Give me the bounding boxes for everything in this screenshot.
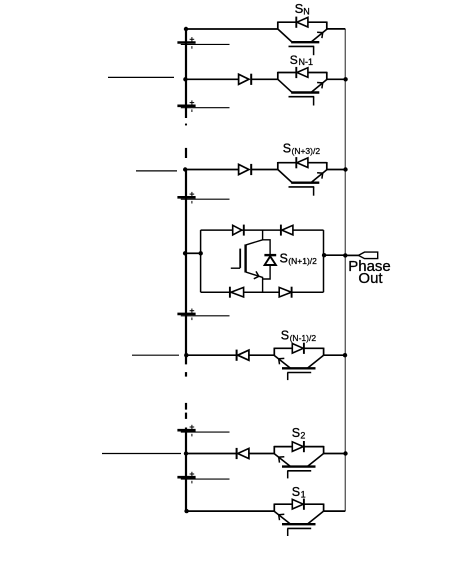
stub wire	[136, 170, 177, 172]
IGBT body	[278, 79, 292, 92]
node	[343, 451, 347, 455]
middle cell bridge box	[201, 230, 324, 292]
wire	[186, 78, 239, 80]
node	[183, 77, 187, 81]
svg-text:S: S	[281, 329, 289, 343]
svg-text:N: N	[303, 6, 310, 16]
node	[343, 253, 347, 257]
svg-text:S: S	[292, 485, 300, 499]
diode	[238, 448, 249, 458]
IGBT switch S(N+1)/2	[231, 230, 263, 292]
phase output terminal	[358, 252, 377, 259]
wire node to switch SN	[186, 28, 278, 30]
bridge diode top-right	[281, 225, 293, 236]
wire	[327, 78, 346, 80]
wire bus to middle cell	[186, 252, 201, 254]
label S(N+3)/2	[283, 142, 321, 156]
wire	[278, 162, 297, 164]
bridge diode bottom-right	[279, 287, 291, 298]
node	[183, 251, 187, 255]
wire	[249, 453, 274, 455]
IGBT body	[278, 29, 292, 42]
antiparallel diode	[292, 442, 303, 452]
label S1	[292, 485, 306, 499]
wire	[324, 354, 346, 356]
label S(N-1)/2	[281, 329, 317, 343]
IGBT switch S(N+3)/2	[278, 157, 327, 196]
wire	[324, 453, 346, 455]
svg-text:S: S	[283, 142, 291, 156]
bridge diode top-left	[233, 225, 244, 236]
clamping diode row 2	[237, 448, 249, 459]
clamping diode row N-1	[239, 74, 252, 85]
node	[184, 353, 188, 357]
stub wire	[132, 354, 179, 356]
gate	[289, 96, 315, 98]
svg-text:S: S	[290, 53, 298, 67]
node	[322, 253, 326, 257]
antiparallel diode of S(N+1)/2	[263, 240, 277, 279]
clamping diode row (N-1)/2	[237, 350, 249, 361]
wire	[278, 21, 297, 23]
label SN	[295, 1, 310, 16]
left DC bus wire	[185, 29, 187, 511]
IGBT body	[308, 511, 324, 524]
IGBT switch S1	[274, 499, 324, 536]
wire	[186, 169, 239, 171]
IGBT body	[308, 454, 324, 467]
node	[199, 251, 203, 255]
wire middle cell to output bus	[324, 254, 346, 256]
wire	[274, 347, 292, 349]
node	[184, 509, 188, 513]
capacitor C3	[177, 196, 195, 199]
label Phase Out	[348, 258, 391, 287]
wire	[324, 510, 346, 512]
node	[343, 167, 347, 171]
wire	[327, 169, 346, 171]
antiparallel diode	[297, 158, 308, 168]
gate	[289, 186, 315, 188]
wire	[251, 169, 278, 171]
svg-text:(N-1)/2: (N-1)/2	[290, 333, 317, 343]
wire	[251, 78, 278, 80]
svg-text:1: 1	[301, 489, 306, 499]
diode	[238, 350, 249, 360]
antiparallel diode	[292, 499, 303, 509]
stub wire to upper stage	[108, 76, 174, 78]
diode	[239, 74, 249, 84]
node	[343, 353, 347, 357]
capacitor C1	[177, 41, 195, 44]
IGBT switch S2	[274, 441, 324, 478]
wire	[186, 453, 237, 455]
gate	[287, 527, 311, 529]
svg-text:(N+3)/2: (N+3)/2	[292, 146, 321, 156]
capacitor C5	[177, 429, 195, 432]
bridge diode bottom-left	[230, 287, 244, 298]
node	[184, 27, 188, 31]
IGBT body	[308, 355, 324, 368]
node	[343, 77, 347, 81]
wire	[274, 503, 292, 505]
capacitor C2	[177, 105, 195, 108]
wire to phase terminal	[345, 254, 358, 256]
IGBT switch S(N-1)/2	[274, 343, 324, 380]
svg-text:(N+1)/2: (N+1)/2	[288, 256, 317, 266]
svg-text:2: 2	[300, 430, 305, 440]
wire	[249, 354, 274, 356]
antiparallel diode	[297, 17, 308, 27]
IGBT switch SN-1	[278, 67, 327, 106]
IGBT switch SN	[278, 17, 327, 56]
wire	[186, 354, 237, 356]
diode	[239, 164, 249, 174]
clamping diode row (N+3)/2	[239, 164, 252, 175]
gate	[287, 470, 311, 472]
svg-text:S: S	[280, 252, 288, 266]
wire	[274, 446, 292, 448]
right output bus wire	[344, 29, 346, 511]
label SN-1	[290, 53, 313, 67]
label S(N+1)/2	[280, 252, 318, 266]
wire	[186, 510, 274, 512]
node	[184, 451, 188, 455]
gate	[287, 372, 311, 374]
svg-text:S: S	[292, 426, 300, 440]
capacitor C6	[177, 476, 195, 479]
label S2	[292, 426, 306, 440]
svg-text:Out: Out	[358, 270, 383, 287]
IGBT body	[278, 170, 292, 183]
wire	[278, 72, 297, 74]
antiparallel diode	[292, 344, 303, 354]
node	[183, 167, 187, 171]
stub wire	[102, 453, 181, 455]
capacitor C4	[177, 313, 195, 316]
antiparallel diode	[297, 68, 308, 78]
wire	[327, 28, 346, 30]
svg-text:N-1: N-1	[299, 57, 314, 67]
gate	[289, 45, 315, 47]
